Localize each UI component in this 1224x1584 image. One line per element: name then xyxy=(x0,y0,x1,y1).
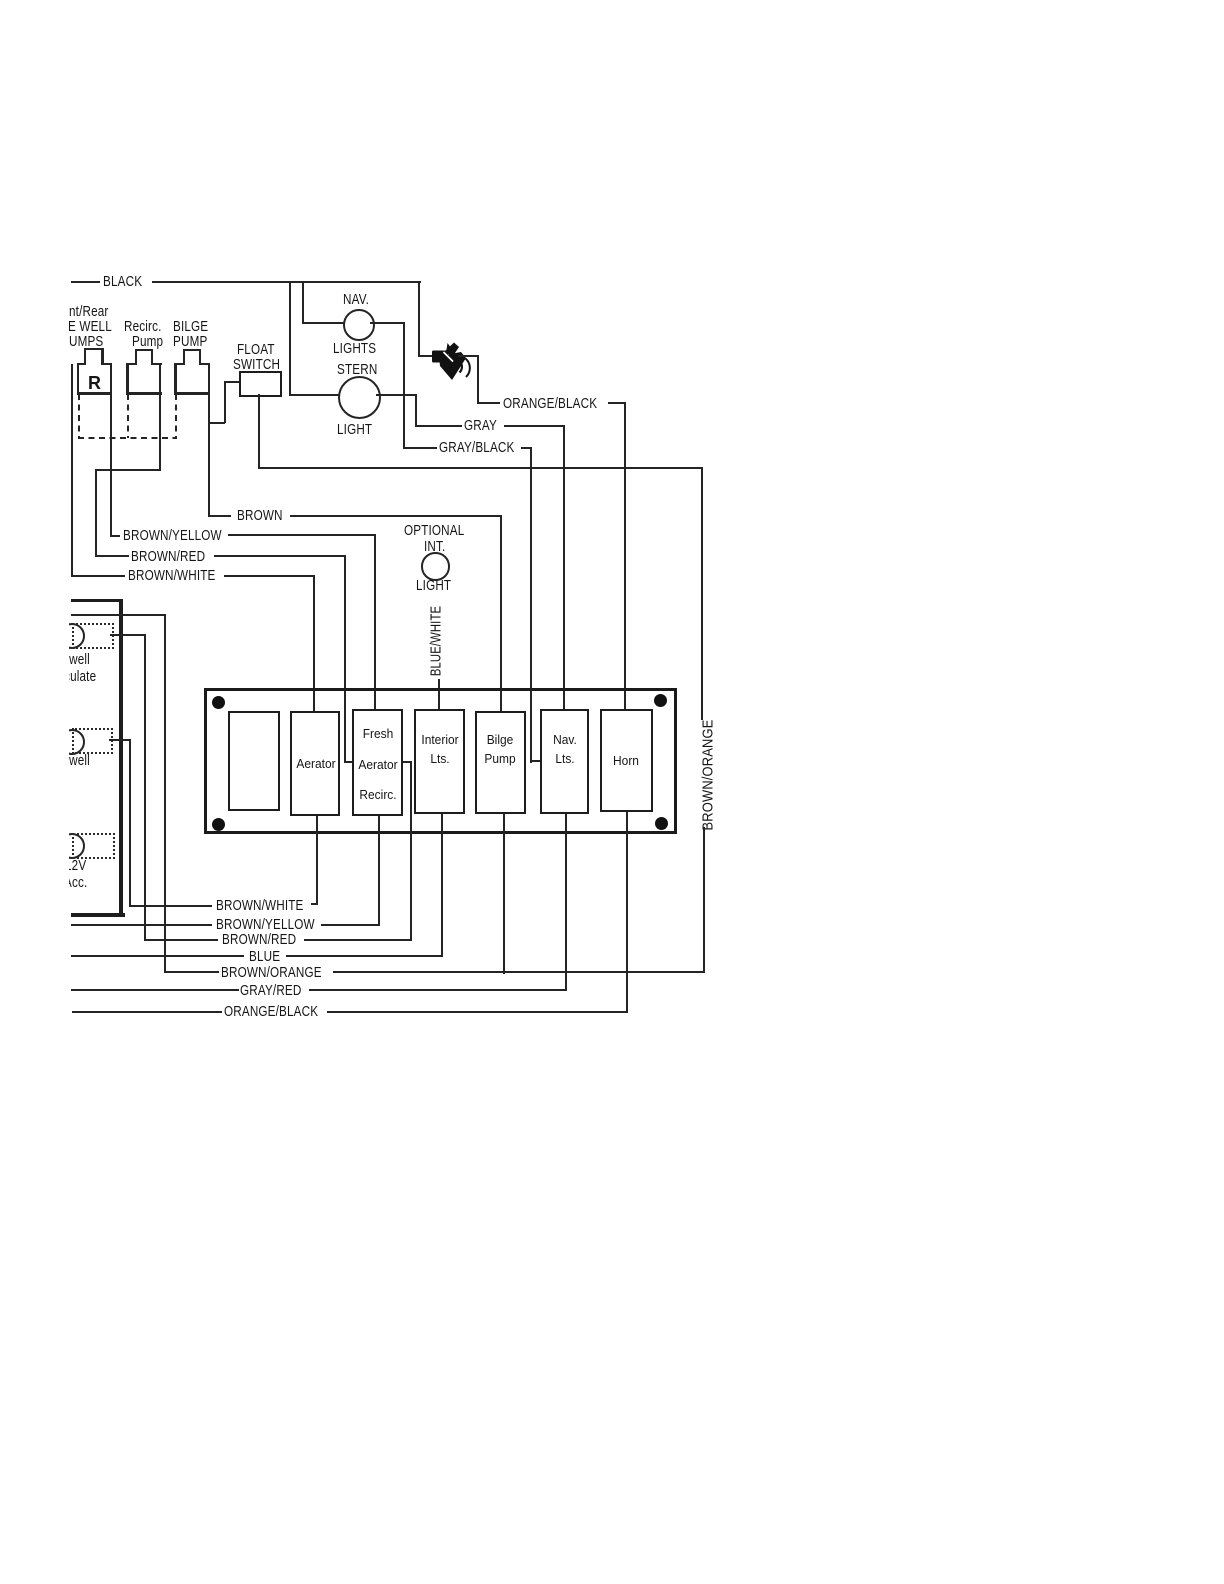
connector C3 plug circle xyxy=(59,833,85,859)
connector C2 dotted housing (Livewell) xyxy=(72,728,113,754)
label GRAY/RED (bottom) xyxy=(240,983,301,998)
label INT. xyxy=(424,539,445,554)
label BROWN/ORANGE (bottom) xyxy=(221,965,322,980)
label GRAY xyxy=(464,418,497,433)
label FLOAT xyxy=(237,342,275,357)
wire S4 bottom down to bottom BLUE xyxy=(441,814,443,957)
connector C1 dotted housing (Livewell Recirculate) xyxy=(72,623,114,650)
left console box top edge xyxy=(71,599,122,602)
label BROWN/YELLOW (bottom) xyxy=(216,917,315,932)
switch S1 blank xyxy=(228,711,280,811)
wire BROWN/RED to Fresh switch left side xyxy=(344,761,353,763)
wire speaker left lead xyxy=(418,355,434,357)
wire bottom BROWN/ORANGE right lead xyxy=(333,971,705,973)
wire S3 right tab down to bottom BROWN/RED xyxy=(410,761,412,941)
switch S6 Nav Lts xyxy=(540,709,589,814)
label ORANGE/BLACK (bottom) xyxy=(224,1004,318,1019)
connector C3 dotted housing (12V Acc.) xyxy=(72,833,115,860)
label Livewell (clipped) xyxy=(47,652,90,667)
pump P1 connector notch xyxy=(84,349,86,365)
wire bottom BROWN/RED right lead xyxy=(304,939,412,941)
label Livewell 2 (clipped) xyxy=(47,753,90,768)
label Front/Rear (clipped) xyxy=(51,304,108,319)
label OPTIONAL xyxy=(404,523,464,538)
wire stern to GRAY drop xyxy=(415,394,417,427)
label BROWN/YELLOW (top) xyxy=(123,528,222,543)
wire bottom BROWN/YELLOW left lead xyxy=(71,924,212,926)
wire bottom BROWN/YELLOW right lead xyxy=(321,924,380,926)
panel screw bottom-left xyxy=(212,818,225,831)
left console box bottom edge xyxy=(71,913,125,917)
wire GRAY label right lead xyxy=(504,425,565,427)
wire bottom GRAY/RED left lead xyxy=(71,989,239,991)
wire BROWN label right lead xyxy=(290,515,502,517)
label BROWN/WHITE (top) xyxy=(128,568,216,583)
panel screw top-left xyxy=(212,696,225,709)
pump P2 connector notch xyxy=(135,350,137,365)
wire S3 bottom down to bottom BROWN/YELLOW xyxy=(378,816,380,926)
wire drop to stern light xyxy=(289,281,291,396)
lamp optional interior light xyxy=(421,552,450,581)
wire C2 right lead xyxy=(109,739,130,741)
wire pump P2 right lead xyxy=(159,363,161,471)
label Recirculate (clipped) xyxy=(36,669,96,684)
label NAV. xyxy=(343,292,369,307)
wire S7 bottom down to bottom ORANGE/BLACK xyxy=(626,812,628,1013)
wire tap down to bottom BROWN/ORANGE xyxy=(164,614,166,973)
wire right side down (lower part) xyxy=(703,827,705,973)
label 12V (clipped) xyxy=(65,858,86,873)
panel screw bottom-right xyxy=(655,817,668,830)
label Recirc. xyxy=(124,319,162,334)
wire BROWN/WHITE down to Aerator switch xyxy=(313,575,315,712)
wire right side down (upper part) xyxy=(701,467,703,720)
wire C1 down to bottom BROWN/RED xyxy=(144,634,146,941)
label ORANGE/BLACK xyxy=(503,396,597,411)
wire drop to horn speaker xyxy=(418,281,420,357)
label LIGHT xyxy=(337,422,372,437)
lamp NAV LIGHTS xyxy=(343,309,375,341)
wire S3 right tab xyxy=(403,761,411,763)
pump P3 connector notch xyxy=(183,350,185,365)
wire BROWN/WHITE end hook xyxy=(311,903,318,905)
wire float switch bottom drop xyxy=(258,394,260,469)
panel screw top-right xyxy=(654,694,667,707)
wire S6 bottom down to bottom GRAY/RED xyxy=(565,814,567,992)
wire bottom BROWN/ORANGE left lead xyxy=(164,971,220,973)
lamp STERN LIGHT xyxy=(338,376,381,419)
connector C2 plug circle xyxy=(59,729,85,755)
wire GRAY/BLACK to Nav Lts switch left side xyxy=(530,760,542,762)
wire BLUE/WHITE down to Interior Lts switch xyxy=(438,679,440,710)
label LIVE WELL (clipped) xyxy=(50,319,112,334)
wire speaker to ORANGE/BLACK drop xyxy=(477,355,479,404)
pump P2 body (Recirc. Pump) xyxy=(126,363,136,365)
label STERN xyxy=(337,362,377,377)
wire GRAY label left lead xyxy=(415,425,463,427)
dashed outline under P3 xyxy=(175,394,177,439)
wire bottom BLUE left lead xyxy=(71,955,244,957)
left console box right edge xyxy=(119,599,123,916)
wire BLACK bus left stub xyxy=(71,281,100,283)
wire speaker right lead xyxy=(458,355,479,357)
switch S5 Bilge Pump xyxy=(475,711,526,814)
pump P1 body (Front/Rear Livewell pumps, R) xyxy=(77,363,87,365)
wire BROWN/RED right lead xyxy=(214,555,346,557)
wire P2 jog left xyxy=(95,469,162,471)
connector C1 plug circle xyxy=(59,623,85,649)
label BILGE xyxy=(173,319,208,334)
dashed group outline under P1 xyxy=(78,394,80,439)
wire S2 bottom down to bottom BROWN/WHITE xyxy=(316,816,318,905)
switch S7 Horn xyxy=(600,709,653,812)
wire bottom BLUE right lead xyxy=(286,955,443,957)
wire stern light left lead xyxy=(289,394,339,396)
label PUMPS (clipped) xyxy=(61,334,103,349)
wire ORANGE/BLACK label left lead xyxy=(477,402,501,404)
label Pump xyxy=(132,334,163,349)
wire drop to nav lights xyxy=(302,281,304,324)
wire bottom GRAY/RED right lead xyxy=(309,989,567,991)
label BROWN/RED (bottom) xyxy=(222,932,296,947)
label BLUE/WHITE (vertical) xyxy=(428,606,443,676)
wire nav lights left lead xyxy=(302,322,344,324)
wire stern light right lead xyxy=(376,394,417,396)
dashed group bottom xyxy=(78,437,178,439)
wire nav to GRAY/BLACK drop xyxy=(403,322,405,450)
wire bottom BROWN/RED left lead xyxy=(144,939,218,941)
label Acc. (clipped) xyxy=(64,875,87,890)
wire BROWN/YELLOW down to Fresh switch xyxy=(374,534,376,710)
wire pump P3 right lead down to BROWN xyxy=(208,363,210,517)
label BROWN xyxy=(237,508,283,523)
label BLACK xyxy=(103,274,142,289)
wire bottom BROWN/WHITE left lead xyxy=(129,905,213,907)
wire pump P1 right lead down to BROWN/YELLOW xyxy=(110,363,112,536)
switch S3 Fresh Aerator Recirc xyxy=(352,709,403,816)
horn speaker icon xyxy=(427,338,475,386)
wire bottom ORANGE/BLACK left lead xyxy=(72,1011,222,1013)
label BLUE (bottom) xyxy=(249,949,280,964)
label BROWN/RED (top) xyxy=(131,549,205,564)
label SWITCH xyxy=(233,357,280,372)
wire C1 right lead xyxy=(110,634,146,636)
label LIGHTS xyxy=(333,341,376,356)
label PUMP xyxy=(173,334,207,349)
wire P1 left lead down to BROWN/WHITE xyxy=(71,364,73,577)
wire GRAY down to Nav Lts switch xyxy=(563,425,565,710)
scan clip mask left edge xyxy=(0,0,69,1584)
wire BROWN/WHITE right lead xyxy=(224,575,316,577)
switch S2 Aerator xyxy=(290,711,340,816)
label R on pump P1 xyxy=(88,374,101,392)
dashed outline under P2 xyxy=(127,394,129,439)
wire GRAY/BLACK down into panel xyxy=(530,447,532,763)
float switch box xyxy=(239,371,282,398)
wire BLACK bus main run xyxy=(152,281,421,283)
wire float switch left tab xyxy=(224,381,240,383)
wire bottom ORANGE/BLACK right lead xyxy=(327,1011,628,1013)
switch S4 Interior Lts xyxy=(414,709,464,814)
wire ORANGE/BLACK down to Horn switch xyxy=(624,402,626,710)
wire BROWN down to Bilge Pump switch xyxy=(500,515,502,712)
wire long run float switch to right side xyxy=(258,467,703,469)
label LIGHT (optional) xyxy=(416,578,451,593)
wire GRAY/BLACK label right lead xyxy=(521,447,532,449)
wire P2 down to BROWN/RED xyxy=(95,469,97,558)
wire BROWN/YELLOW right lead xyxy=(228,534,376,536)
pump P3 body (Bilge Pump) xyxy=(174,363,184,365)
switch panel housing xyxy=(204,688,677,834)
wire console bus to BROWN/ORANGE tap xyxy=(71,614,166,617)
wire S5 bottom down to bottom BROWN/ORANGE xyxy=(503,814,505,974)
wire ORANGE/BLACK label right lead xyxy=(608,402,626,404)
label GRAY/BLACK xyxy=(439,440,514,455)
wire BROWN/RED down into panel xyxy=(344,555,346,763)
label BROWN/WHITE (bottom) xyxy=(216,898,304,913)
wire GRAY/BLACK label left lead xyxy=(403,447,437,449)
wire nav lights right lead xyxy=(370,322,405,324)
wire C2 down to bottom BROWN/WHITE xyxy=(129,739,131,907)
label BROWN/ORANGE (vertical) xyxy=(700,719,715,830)
